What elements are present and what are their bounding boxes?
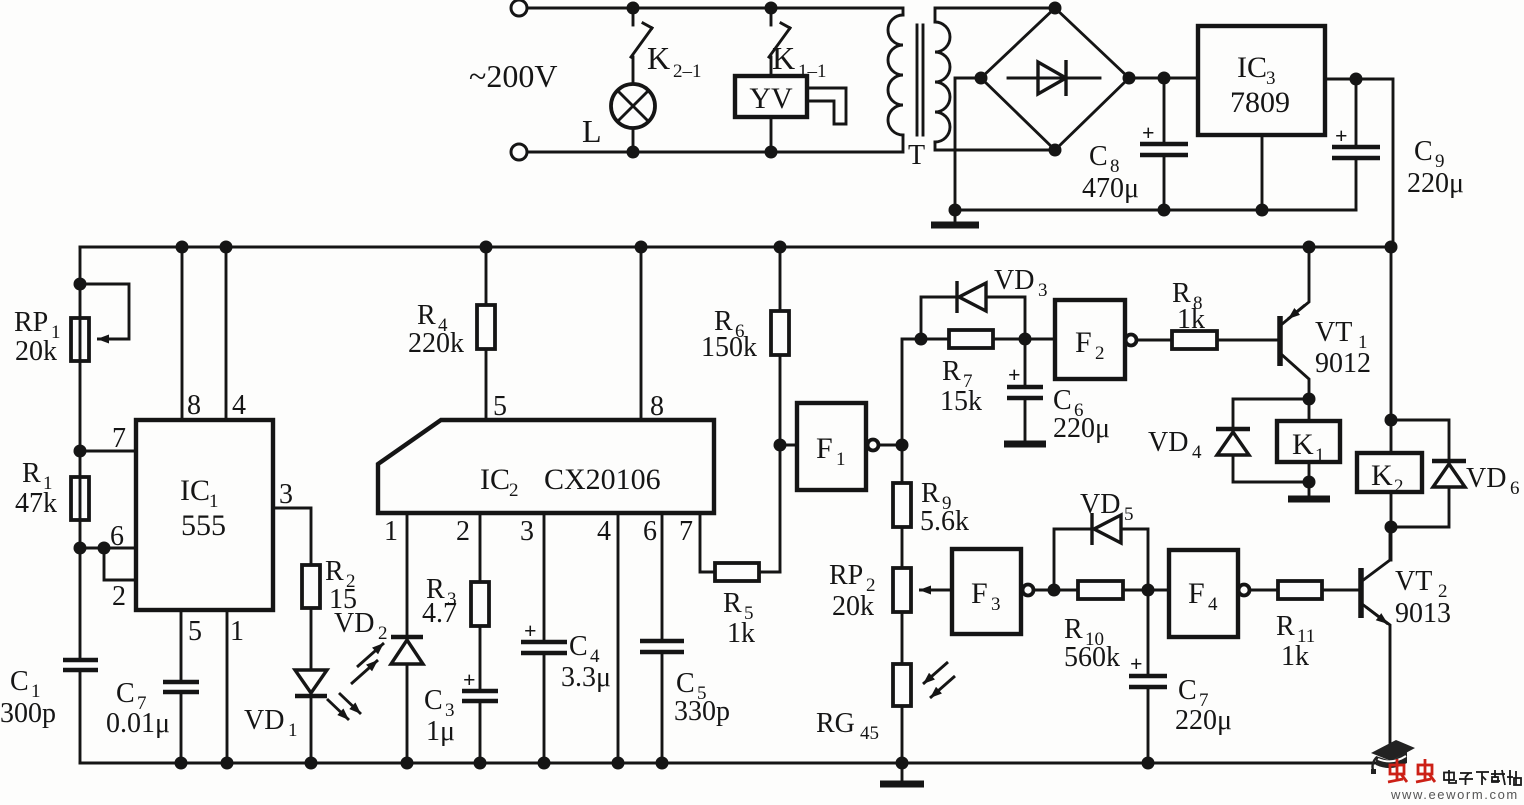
wire IC2 pin1 bbox=[406, 513, 409, 636]
node K1 bottom bbox=[1303, 476, 1316, 489]
svg-text:C: C bbox=[569, 631, 588, 662]
wire VD3 branch up bbox=[921, 297, 955, 339]
node rail C3 bbox=[474, 757, 487, 770]
node C8 bottom bbox=[1158, 204, 1171, 217]
wire pin6 bbox=[80, 547, 136, 550]
resistor R9 bbox=[901, 445, 904, 483]
resistor R3 body bbox=[471, 582, 489, 626]
node ground left bbox=[949, 204, 962, 217]
wire YV branch upper bbox=[770, 8, 773, 25]
node rail RG45 bbox=[896, 757, 909, 770]
node R7 right bbox=[1019, 333, 1032, 346]
node YV bottom bbox=[765, 146, 778, 159]
node rail C7 right bbox=[1142, 757, 1155, 770]
potentiometer RP1 body bbox=[71, 318, 89, 361]
node rail C4 bbox=[538, 757, 551, 770]
svg-text:RP: RP bbox=[829, 560, 863, 591]
regulator IC3 7809 bbox=[1198, 26, 1325, 135]
svg-text:+: + bbox=[524, 618, 537, 643]
diode VD5 bbox=[1090, 513, 1093, 545]
svg-text:VD: VD bbox=[1080, 489, 1120, 520]
lamp L bbox=[611, 84, 655, 128]
wire VD5 branch up bbox=[1054, 529, 1090, 590]
svg-text:4: 4 bbox=[1208, 594, 1218, 615]
wire secondary bottom to bridge bbox=[935, 142, 1055, 150]
diode VD4 bbox=[1216, 427, 1250, 432]
wire VCC rail bbox=[80, 246, 1393, 249]
svg-text:+: + bbox=[1130, 651, 1143, 676]
wire AC bottom rail bbox=[527, 135, 903, 152]
transformer T secondary winding bbox=[935, 22, 950, 142]
svg-text:K: K bbox=[647, 40, 670, 76]
node VCC pin4 bbox=[220, 241, 233, 254]
gate F3 bbox=[952, 549, 1021, 634]
svg-text:C: C bbox=[1178, 675, 1197, 706]
svg-text:1k: 1k bbox=[1281, 641, 1309, 672]
svg-text:6: 6 bbox=[643, 516, 657, 547]
node F1 input on R6 line bbox=[774, 439, 787, 452]
svg-text:IC: IC bbox=[480, 463, 510, 496]
capacitor C5 bbox=[640, 639, 684, 644]
solenoid YV box bbox=[735, 76, 807, 117]
wire IC2 pin6 bbox=[661, 513, 664, 639]
diode VD6 bbox=[1432, 459, 1466, 464]
svg-text:IC: IC bbox=[180, 474, 210, 507]
gate F4 bbox=[1169, 550, 1238, 637]
svg-text:R: R bbox=[723, 588, 742, 619]
ground K1 bbox=[1308, 482, 1311, 496]
wire lamp branch upper bbox=[632, 8, 635, 25]
bridge diode symbol bbox=[1008, 77, 1100, 80]
svg-text:4: 4 bbox=[232, 390, 246, 421]
wire left vertical bbox=[79, 247, 82, 658]
node bridge bottom bbox=[1049, 144, 1062, 157]
svg-text:2: 2 bbox=[1394, 476, 1404, 497]
node bridge right bbox=[1123, 72, 1136, 85]
svg-text:1: 1 bbox=[1315, 445, 1325, 466]
wire bridge output to IC3 bbox=[1129, 77, 1198, 80]
bridge rectifier diamond bbox=[981, 8, 1129, 150]
IC2 CX20106 box bbox=[378, 420, 714, 513]
svg-text:YV: YV bbox=[749, 82, 793, 115]
svg-text:VD: VD bbox=[1148, 427, 1188, 458]
svg-text:C: C bbox=[10, 666, 29, 697]
svg-text:~200V: ~200V bbox=[469, 58, 557, 94]
photoresistor RG45 body bbox=[893, 664, 911, 706]
svg-text:4: 4 bbox=[1192, 442, 1202, 463]
ground power supply bbox=[954, 210, 957, 222]
wire F1 input bbox=[780, 444, 797, 447]
node RP1 wiper tap bbox=[74, 278, 87, 291]
resistor R2 body bbox=[302, 565, 320, 608]
resistor R10 body bbox=[1078, 581, 1123, 599]
wire AC top rail bbox=[527, 8, 903, 15]
svg-text:C: C bbox=[1089, 141, 1108, 172]
svg-text:2–1: 2–1 bbox=[673, 61, 702, 82]
node R7 left bbox=[915, 333, 928, 346]
svg-text:C: C bbox=[1414, 136, 1433, 167]
svg-text:R: R bbox=[1276, 611, 1295, 642]
resistor R6 bbox=[779, 247, 782, 311]
wire IC3 output bbox=[1325, 79, 1393, 247]
wire R5 to R6 node bbox=[759, 571, 780, 574]
wire YV to bottom rail bbox=[770, 117, 773, 152]
svg-text:+: + bbox=[1335, 123, 1348, 148]
resistor R7 body bbox=[921, 338, 949, 341]
wire F4 output bbox=[1250, 589, 1278, 592]
svg-text:F: F bbox=[1075, 326, 1092, 359]
node VCC R4 bbox=[480, 241, 493, 254]
node C8 top bbox=[1158, 72, 1171, 85]
wire IC3 ground pin bbox=[1261, 135, 1264, 210]
svg-text:8: 8 bbox=[187, 390, 201, 421]
node K2 bottom bbox=[1385, 521, 1398, 534]
node IC3 gnd bbox=[1256, 204, 1269, 217]
svg-text:R: R bbox=[1064, 614, 1083, 645]
watermark cap icon bbox=[1371, 740, 1415, 761]
svg-text:7: 7 bbox=[679, 516, 693, 547]
svg-text:1: 1 bbox=[836, 449, 846, 470]
node pin6 mid bbox=[98, 542, 111, 555]
gate F1 bbox=[797, 403, 866, 490]
svg-text:150k: 150k bbox=[701, 332, 757, 363]
svg-text:9012: 9012 bbox=[1315, 348, 1371, 379]
resistor R5 body bbox=[715, 563, 759, 581]
svg-text:4: 4 bbox=[597, 516, 611, 547]
svg-text:2: 2 bbox=[112, 581, 126, 612]
wire power ground rail bbox=[955, 209, 1356, 212]
switch K2-1 bbox=[643, 23, 652, 28]
svg-text:R: R bbox=[22, 458, 41, 489]
svg-text:5: 5 bbox=[188, 616, 202, 647]
node VT1 collector bbox=[1303, 393, 1316, 406]
svg-text:VD: VD bbox=[334, 608, 374, 639]
svg-text:C: C bbox=[1053, 385, 1072, 416]
node F1 output bbox=[896, 439, 909, 452]
svg-text:T: T bbox=[908, 140, 925, 171]
node bridge left bbox=[975, 72, 988, 85]
relay K1 bbox=[1308, 399, 1311, 421]
resistor R1 body bbox=[71, 477, 89, 520]
svg-text:6: 6 bbox=[110, 521, 124, 552]
node K2 top bbox=[1385, 414, 1398, 427]
svg-text:R: R bbox=[921, 478, 940, 509]
LED VD2 bbox=[391, 635, 423, 640]
svg-text:+: + bbox=[463, 667, 476, 692]
wire pin3 bbox=[273, 508, 311, 565]
svg-text:C: C bbox=[116, 678, 135, 709]
svg-text:555: 555 bbox=[181, 509, 226, 542]
wire pin2 jog bbox=[104, 548, 136, 580]
wire switch to lamp bbox=[632, 57, 635, 84]
node rail pin1 bbox=[221, 757, 234, 770]
wire IC2 pin3 bbox=[543, 513, 546, 640]
svg-text:7809: 7809 bbox=[1230, 86, 1290, 119]
wire collector to VD4 bbox=[1233, 399, 1309, 429]
svg-text:220μ: 220μ bbox=[1175, 705, 1232, 736]
svg-text:K: K bbox=[1371, 459, 1393, 492]
node VCC K2 bbox=[1385, 241, 1398, 254]
capacitor C7 right bbox=[1147, 590, 1150, 674]
node C9 top bbox=[1350, 73, 1363, 86]
wire IC2 pin4 bbox=[617, 513, 620, 763]
svg-text:F: F bbox=[1188, 577, 1205, 610]
wire pin1 bbox=[226, 610, 229, 763]
svg-text:4.7: 4.7 bbox=[422, 598, 457, 629]
capacitor C7 bbox=[163, 680, 199, 685]
svg-text:0.01μ: 0.01μ bbox=[106, 708, 170, 739]
svg-text:330p: 330p bbox=[674, 696, 730, 727]
svg-text:RP: RP bbox=[14, 307, 48, 338]
wire IC2 pin8 top bbox=[640, 247, 643, 420]
svg-text:+: + bbox=[1008, 362, 1021, 387]
node lamp bottom bbox=[627, 146, 640, 159]
svg-text:47k: 47k bbox=[15, 488, 57, 519]
node VCC R6 bbox=[774, 241, 787, 254]
svg-text:3: 3 bbox=[1038, 280, 1048, 301]
svg-text:5.6k: 5.6k bbox=[920, 506, 969, 537]
diode VD3 bbox=[955, 281, 958, 313]
capacitor C4 bbox=[521, 640, 567, 645]
AC input terminal bottom bbox=[511, 144, 527, 160]
capacitor C8 bbox=[1163, 78, 1166, 142]
svg-text:220μ: 220μ bbox=[1407, 168, 1464, 199]
svg-text:IC: IC bbox=[1237, 51, 1267, 84]
capacitor C1 bbox=[63, 658, 98, 663]
svg-text:45: 45 bbox=[860, 723, 879, 744]
svg-text:2: 2 bbox=[509, 480, 519, 501]
wire IC2 pin7 bbox=[700, 513, 715, 572]
svg-text:470μ: 470μ bbox=[1082, 173, 1139, 204]
svg-text:R: R bbox=[942, 356, 961, 387]
wire pin4 bbox=[225, 247, 228, 420]
svg-text:L: L bbox=[582, 113, 602, 149]
wire secondary top to bridge bbox=[935, 8, 1055, 22]
svg-text:+: + bbox=[1142, 120, 1155, 145]
node VCC pin8 bbox=[176, 241, 189, 254]
svg-text:1: 1 bbox=[384, 516, 398, 547]
svg-text:1: 1 bbox=[288, 720, 298, 741]
svg-text:3: 3 bbox=[520, 516, 534, 547]
svg-text:20k: 20k bbox=[832, 591, 874, 622]
wire bottom ground rail bbox=[80, 762, 1390, 765]
node rail VD2 bbox=[401, 757, 414, 770]
svg-text:F: F bbox=[816, 432, 833, 465]
svg-text:R: R bbox=[325, 556, 344, 587]
resistor R11 body bbox=[1278, 581, 1322, 599]
wire lamp to bottom rail bbox=[632, 128, 635, 152]
svg-text:8: 8 bbox=[650, 391, 664, 422]
svg-text:R: R bbox=[417, 300, 436, 331]
svg-text:F: F bbox=[971, 577, 988, 610]
node F3 output bbox=[1048, 584, 1061, 597]
node YV top bbox=[765, 2, 778, 15]
wire F1 node up to R7 bbox=[902, 339, 921, 445]
svg-text:C: C bbox=[676, 668, 695, 699]
svg-text:VT: VT bbox=[1315, 317, 1352, 348]
wire pin7 bbox=[80, 450, 136, 453]
gate F2 bbox=[1055, 300, 1125, 379]
svg-text:1k: 1k bbox=[1177, 304, 1205, 335]
svg-text:VD: VD bbox=[1466, 463, 1506, 494]
node R10 right bbox=[1142, 584, 1155, 597]
svg-text:3: 3 bbox=[279, 479, 293, 510]
svg-text:560k: 560k bbox=[1064, 642, 1120, 673]
transistor VT2 9013 bbox=[1358, 568, 1364, 618]
RP2 wiper arrow from F3 bbox=[934, 589, 952, 592]
svg-text:3.3μ: 3.3μ bbox=[561, 662, 611, 693]
wire F2 output bbox=[1137, 339, 1172, 342]
svg-text:220μ: 220μ bbox=[1053, 413, 1110, 444]
svg-text:2: 2 bbox=[378, 623, 388, 644]
ground bottom bbox=[901, 763, 904, 781]
wire bridge left to ground rail bbox=[955, 78, 981, 210]
wire IC2 pin2 bbox=[479, 513, 482, 582]
svg-text:VD: VD bbox=[994, 265, 1034, 296]
wire VD6 top bbox=[1391, 420, 1449, 459]
transistor VT1 9012 bbox=[1277, 316, 1283, 366]
watermark site name glyphs bbox=[1444, 770, 1521, 785]
node rail pin4 bbox=[612, 757, 625, 770]
resistor R4 bbox=[485, 247, 488, 305]
svg-text:1k: 1k bbox=[727, 618, 755, 649]
svg-text:5: 5 bbox=[1124, 504, 1134, 525]
svg-text:K: K bbox=[772, 40, 795, 76]
svg-text:9013: 9013 bbox=[1395, 598, 1451, 629]
wire F1 output bbox=[879, 444, 902, 447]
svg-text:www.eeworm.com: www.eeworm.com bbox=[1390, 787, 1519, 800]
svg-text:2: 2 bbox=[456, 516, 470, 547]
svg-text:220k: 220k bbox=[408, 328, 464, 359]
svg-text:1: 1 bbox=[230, 616, 244, 647]
svg-text:C: C bbox=[424, 685, 443, 716]
wire F3 output bbox=[1034, 589, 1078, 592]
transformer core bbox=[916, 25, 919, 135]
svg-text:1μ: 1μ bbox=[426, 716, 455, 747]
node rail C7a bbox=[175, 757, 188, 770]
resistor R8 body bbox=[1172, 331, 1217, 349]
svg-text:VT: VT bbox=[1395, 566, 1432, 597]
solenoid plunger armature bbox=[807, 87, 846, 90]
node pin7 bbox=[74, 445, 87, 458]
svg-text:300p: 300p bbox=[0, 698, 56, 729]
watermark chongchong red glyphs bbox=[1388, 759, 1435, 782]
svg-text:6: 6 bbox=[1510, 478, 1520, 499]
potentiometer RP1 wiper loop bbox=[80, 284, 129, 339]
node VCC VT1 emitter bbox=[1303, 241, 1316, 254]
svg-text:VD: VD bbox=[244, 705, 284, 736]
IC1 555 box bbox=[136, 420, 273, 610]
node lamp top bbox=[627, 2, 640, 15]
transformer T primary winding bbox=[888, 15, 903, 135]
wire pin8 bbox=[181, 247, 184, 420]
svg-text:7: 7 bbox=[112, 423, 126, 454]
LED VD1 bbox=[295, 670, 327, 693]
wire R2 to VD1 bbox=[310, 608, 313, 670]
AC input terminal top bbox=[511, 0, 527, 16]
node rail VD1 bbox=[305, 757, 318, 770]
node bridge top bbox=[1049, 2, 1062, 15]
svg-text:2: 2 bbox=[1095, 343, 1105, 364]
svg-text:20k: 20k bbox=[15, 336, 57, 367]
node VCC pin8 IC2 bbox=[635, 241, 648, 254]
potentiometer RP2 body bbox=[893, 568, 911, 612]
wire switch to YV bbox=[770, 57, 773, 76]
capacitor C6 bbox=[1024, 339, 1027, 385]
svg-text:15k: 15k bbox=[940, 386, 982, 417]
relay K2 bbox=[1357, 453, 1422, 492]
svg-text:3: 3 bbox=[991, 594, 1001, 615]
wire K2 branch from VCC bbox=[1390, 247, 1393, 453]
node pin6 left bbox=[74, 542, 87, 555]
svg-text:1–1: 1–1 bbox=[798, 61, 827, 82]
svg-text:5: 5 bbox=[493, 391, 507, 422]
capacitor C3 bbox=[479, 626, 482, 689]
svg-text:CX20106: CX20106 bbox=[544, 463, 661, 496]
switch K1-1 bbox=[781, 23, 790, 28]
capacitor C9 bbox=[1355, 79, 1358, 145]
svg-text:K: K bbox=[1292, 428, 1314, 461]
wire pin5 bbox=[180, 610, 183, 680]
svg-text:RG: RG bbox=[816, 708, 855, 739]
node rail C5 bbox=[656, 757, 669, 770]
